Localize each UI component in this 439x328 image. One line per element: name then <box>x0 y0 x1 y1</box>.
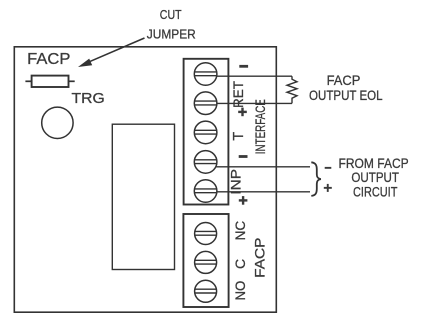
arrow from CUT JUMPER to jumper J1 <box>78 38 145 67</box>
svg-text:NO: NO <box>233 281 248 301</box>
svg-text:NC: NC <box>233 220 248 240</box>
pushbutton TRG <box>42 107 73 138</box>
resistor EOL (FACP output EOL) <box>287 76 297 103</box>
label CUT JUMPER <box>147 8 196 42</box>
wire RET- to EOL resistor <box>216 75 292 77</box>
brace (from FACP output circuit) <box>311 162 321 196</box>
svg-text:T: T <box>231 132 247 141</box>
label + (FROM FACP polarity plus) <box>324 184 332 192</box>
svg-text:FACP: FACP <box>27 51 70 68</box>
label RET+ polarity <box>238 108 247 117</box>
wire INP+ to FACP output circuit <box>216 191 310 193</box>
label INP- polarity <box>239 155 248 158</box>
svg-text:FROM FACP: FROM FACP <box>339 156 409 171</box>
svg-text:JUMPER: JUMPER <box>147 28 196 42</box>
terminal screw T <box>194 121 217 144</box>
terminal screw INP+ <box>194 180 217 203</box>
terminal screw NC <box>195 223 217 245</box>
svg-text:FACP: FACP <box>327 73 361 88</box>
terminal screw RET- <box>194 63 217 86</box>
svg-text:TRG: TRG <box>72 91 105 107</box>
terminal block TB2 (FACP relay) <box>183 214 228 307</box>
terminal screw INP- <box>194 151 217 174</box>
svg-text:OUTPUT: OUTPUT <box>351 170 399 185</box>
terminal screw RET+ <box>194 92 217 115</box>
svg-text:INTERFACE: INTERFACE <box>253 99 268 154</box>
terminal block TB1 (interface) <box>184 59 229 205</box>
svg-text:CUT: CUT <box>160 8 182 22</box>
svg-text:INP: INP <box>229 169 244 195</box>
svg-text:CIRCUIT: CIRCUIT <box>353 184 397 199</box>
svg-text:OUTPUT EOL: OUTPUT EOL <box>309 88 383 103</box>
terminal screw C <box>195 251 217 273</box>
relay K1 (component box) <box>112 124 174 269</box>
label RET- polarity <box>239 65 248 68</box>
jumper J1 (FACP cut jumper) <box>25 76 74 87</box>
board outline <box>14 47 276 312</box>
terminal screw NO <box>195 280 217 302</box>
svg-text:FACP: FACP <box>253 238 268 278</box>
label INP+ polarity <box>239 196 248 205</box>
label FROM FACP OUTPUT CIRCUIT <box>339 156 409 200</box>
wire EOL resistor to RET+ <box>216 102 292 104</box>
label - (FROM FACP polarity minus) <box>325 167 332 169</box>
wire INP- to FACP output circuit <box>216 166 311 168</box>
label FACP OUTPUT EOL <box>309 73 383 103</box>
svg-text:C: C <box>232 259 248 269</box>
